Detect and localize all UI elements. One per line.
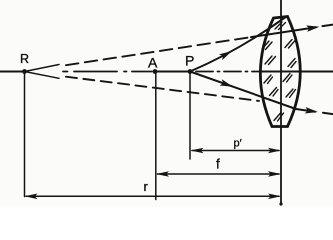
lens glass hatching [262,22,296,121]
p' dimension line [192,150,279,152]
optical axis solid A to P [155,71,190,73]
R extension line [24,73,26,197]
upper refracted ray arrowhead [306,23,320,31]
upper refracted ray solid through lens [251,27,316,37]
lower incident ray from P [190,72,296,110]
lens body outline [260,17,300,127]
point A [153,69,158,74]
upper refracted ray dash beyond arrow [323,25,333,27]
r dimension line [26,195,279,197]
lens plane vertical line [280,0,282,204]
f dimension line [158,173,280,175]
svg-text:A: A [148,54,158,70]
optical axis dash-dot R to A [63,71,152,73]
point P [188,69,193,74]
A extension line [155,73,157,200]
svg-text:R: R [20,52,29,66]
lower virtual ray: solid tip at R [25,72,60,79]
r right arrowhead [268,194,281,200]
svg-text:r: r [144,179,149,194]
f left arrowhead [156,171,169,177]
optical axis left segment [0,71,26,73]
point R [22,69,27,74]
arrowhead on lower incident ray [220,79,234,90]
svg-text:f: f [216,157,220,172]
p' left arrowhead [191,148,204,154]
svg-text:P: P [185,53,194,69]
svg-text:p′: p′ [234,137,242,149]
optical axis dash-dot P to lens [196,71,260,73]
lower refracted ray arrowhead [305,107,319,115]
upper virtual ray: dashed section [66,37,249,65]
small dot at bottom of lens plane line [279,202,282,205]
upper incident ray from P (slightly bowed) [190,18,285,72]
upper virtual ray: solid tip at R [25,65,60,72]
lower refracted ray [296,109,315,112]
lower virtual ray: dashed section [66,77,259,101]
lower refracted ray dash beyond arrow [323,113,333,114]
P extension line [189,73,191,159]
r left arrowhead [25,194,38,200]
p' right arrowhead [268,148,281,154]
f right arrowhead [268,171,281,177]
optical axis through lens and right [260,71,333,73]
arrowhead on upper incident ray [219,48,234,60]
